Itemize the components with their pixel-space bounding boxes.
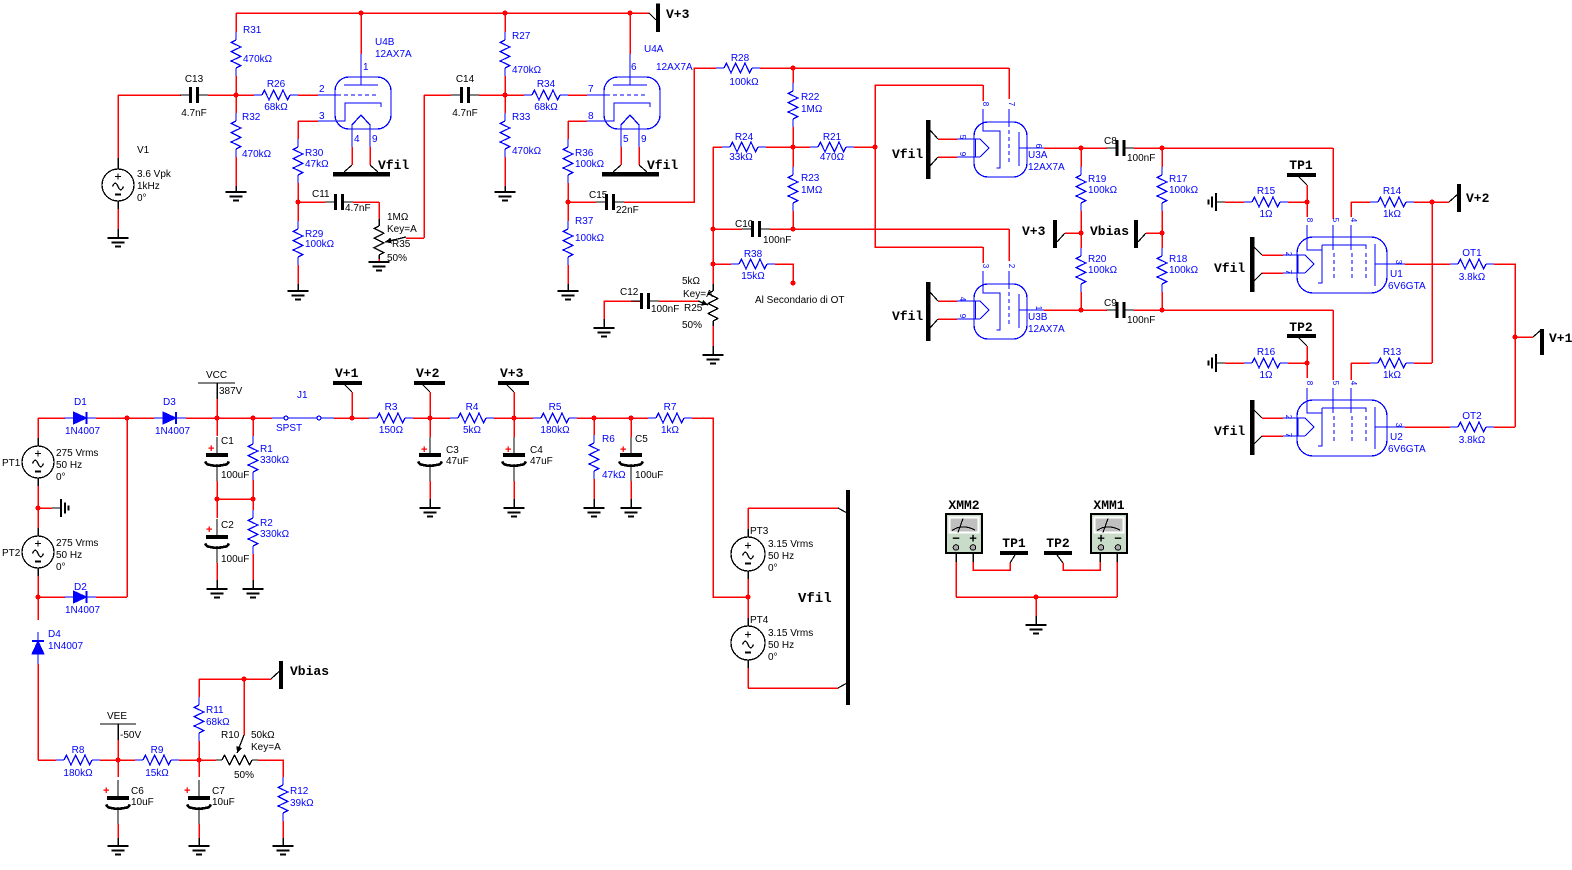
ground left of R25 <box>594 327 615 329</box>
svg-text:R13: R13 <box>1383 347 1402 358</box>
svg-text:Vfil: Vfil <box>1214 261 1245 276</box>
resistor R21 <box>818 142 846 152</box>
svg-text:R38: R38 <box>744 249 763 260</box>
svg-text:3.15 Vrms: 3.15 Vrms <box>768 539 813 550</box>
node C1 C2 junction <box>215 497 220 502</box>
wire Vbias to R10 wiper <box>243 679 245 735</box>
svg-text:100kΩ: 100kΩ <box>575 159 605 170</box>
resistor R16 <box>1252 358 1280 368</box>
svg-text:47uF: 47uF <box>530 456 553 467</box>
svg-text:68kΩ: 68kΩ <box>534 102 558 113</box>
wire U4A cathode pin 8 to R36 <box>568 120 587 122</box>
diode D3 <box>127 417 154 419</box>
wire U3B plate to C9 <box>1044 309 1107 311</box>
capacitor C2 <box>216 499 218 518</box>
svg-text:C11: C11 <box>312 189 330 200</box>
source V1 input <box>117 95 119 158</box>
resistor R34 <box>532 90 560 100</box>
svg-text:100nF: 100nF <box>763 235 791 246</box>
svg-text:180kΩ: 180kΩ <box>540 425 570 436</box>
svg-text:−: − <box>952 531 960 546</box>
ground below C2 <box>207 588 228 590</box>
svg-text:U3B: U3B <box>1028 312 1048 323</box>
svg-text:R26: R26 <box>267 79 286 90</box>
node PT2 bottom junction <box>36 595 41 600</box>
potentiometer R35 1M <box>374 226 384 255</box>
ground below R2 <box>243 588 264 590</box>
wire tail riser to cathodes <box>875 85 983 247</box>
resistor R33 <box>500 121 510 149</box>
svg-text:100nF: 100nF <box>1127 153 1155 164</box>
svg-text:4.7nF: 4.7nF <box>452 108 478 119</box>
svg-text:VCC: VCC <box>206 370 227 381</box>
svg-text:U4A: U4A <box>644 44 664 55</box>
svg-text:Vfil: Vfil <box>1214 424 1245 439</box>
svg-text:4: 4 <box>1349 218 1358 223</box>
svg-text:100uF: 100uF <box>221 470 249 481</box>
svg-text:R30: R30 <box>305 148 324 159</box>
svg-text:C15: C15 <box>589 190 608 201</box>
wire R34 to U4A grid pin 7 <box>568 94 587 96</box>
svg-text:100kΩ: 100kΩ <box>1088 185 1118 196</box>
svg-text:R21: R21 <box>823 132 842 143</box>
resistor OT1 <box>1458 259 1486 269</box>
svg-text:R31: R31 <box>243 25 262 36</box>
svg-text:387V: 387V <box>219 386 243 397</box>
resistor R15 <box>1252 197 1280 207</box>
svg-text:U4B: U4B <box>375 37 395 48</box>
node splitter bias junction <box>791 145 796 150</box>
svg-text:10uF: 10uF <box>131 797 154 808</box>
wire C14 to grid node 2 <box>479 94 524 96</box>
svg-text:47kΩ: 47kΩ <box>305 159 329 170</box>
wire meter ground rail <box>956 596 1117 598</box>
wire U1 plate to OT1 <box>1405 263 1450 265</box>
svg-text:1N4007: 1N4007 <box>48 641 83 652</box>
svg-text:8: 8 <box>1305 218 1314 223</box>
wire XMM2 minus to ground rail <box>955 553 957 562</box>
connector V+2 right <box>1449 194 1458 202</box>
svg-text:C3: C3 <box>446 445 459 456</box>
svg-text:22nF: 22nF <box>616 205 639 216</box>
svg-text:3: 3 <box>1394 423 1403 428</box>
svg-text:C8: C8 <box>1104 136 1117 147</box>
wire OT1 to V+1 node <box>1494 264 1515 337</box>
wire U4B cathode pin 3 to R30 <box>298 120 318 122</box>
node center tap junction <box>36 506 41 511</box>
wire B+ top rail net V+3 <box>236 12 649 14</box>
svg-text:V+2: V+2 <box>416 366 440 381</box>
svg-text:R5: R5 <box>549 402 562 413</box>
svg-text:R1: R1 <box>260 444 273 455</box>
svg-text:470kΩ: 470kΩ <box>512 65 542 76</box>
diode D4 <box>37 597 39 620</box>
wire C12 to R25 wiper <box>659 300 700 302</box>
node V+2 junction <box>1430 200 1435 205</box>
connector Vbias mid <box>1134 220 1138 248</box>
svg-text:VEE: VEE <box>107 711 127 722</box>
capacitor C8 <box>1116 140 1119 156</box>
svg-text:V+1: V+1 <box>335 366 359 381</box>
svg-text:R36: R36 <box>575 148 594 159</box>
svg-text:6V6GTA: 6V6GTA <box>1388 444 1426 455</box>
wire C13 to grid node <box>208 94 254 96</box>
svg-text:50%: 50% <box>387 253 407 264</box>
source PT3 <box>747 508 749 529</box>
svg-text:Key=A: Key=A <box>251 742 281 753</box>
svg-text:3: 3 <box>1394 260 1403 265</box>
wire PT3 to Vfil bus <box>748 507 838 509</box>
ground below meters <box>1026 624 1047 626</box>
ground below R37 <box>558 290 579 292</box>
svg-text:R7: R7 <box>664 402 677 413</box>
capacitor C1 <box>216 418 218 436</box>
wire R13 to screen pin 4 of U2 <box>1350 363 1352 380</box>
svg-text:2: 2 <box>1284 415 1293 420</box>
svg-text:R11: R11 <box>206 705 224 716</box>
svg-text:+: + <box>184 785 190 797</box>
svg-text:50%: 50% <box>234 770 254 781</box>
capacitor C9 <box>1116 302 1119 318</box>
capacitor C12 <box>631 300 641 302</box>
svg-text:OT1: OT1 <box>1462 248 1482 259</box>
svg-text:R24: R24 <box>735 132 754 143</box>
svg-text:R22: R22 <box>801 92 820 103</box>
svg-text:U1: U1 <box>1390 269 1403 280</box>
svg-text:1kΩ: 1kΩ <box>1383 370 1402 381</box>
resistor R23 <box>788 175 798 203</box>
node C8 right junction <box>1160 146 1165 151</box>
svg-text:D2: D2 <box>74 582 87 593</box>
svg-text:6: 6 <box>1034 144 1043 149</box>
svg-text:5: 5 <box>623 134 629 145</box>
svg-text:9: 9 <box>641 134 647 145</box>
svg-text:V+3: V+3 <box>666 7 690 22</box>
wire R31 bottom to node <box>235 76 237 95</box>
svg-text:C9: C9 <box>1104 298 1117 309</box>
svg-text:5kΩ: 5kΩ <box>463 425 482 436</box>
multimeter XMM2 <box>946 514 982 553</box>
svg-text:180kΩ: 180kΩ <box>63 768 93 779</box>
svg-text:Vfil: Vfil <box>892 147 923 162</box>
node V+1 junction <box>1513 335 1518 340</box>
capacitor C5 <box>630 418 632 437</box>
resistor R20 <box>1076 256 1086 284</box>
capacitor C3 <box>429 418 431 437</box>
svg-text:12AX7A: 12AX7A <box>1028 324 1065 335</box>
pentode U2 6V6GTA <box>1297 400 1387 456</box>
potentiometer R10 50k <box>222 755 252 765</box>
svg-text:0°: 0° <box>137 193 147 204</box>
ground below C3 <box>420 507 441 509</box>
svg-text:R27: R27 <box>512 31 531 42</box>
ground below V1 <box>108 237 129 239</box>
pentode U1 6V6GTA <box>1297 237 1387 293</box>
ground below R29 <box>288 290 309 292</box>
resistor R36 <box>563 147 573 175</box>
node stage2 output junction <box>566 200 571 205</box>
wire Vbias net <box>199 678 244 680</box>
svg-text:8: 8 <box>1305 381 1314 386</box>
svg-text:U2: U2 <box>1390 432 1403 443</box>
node junction U4B plate to rail <box>359 11 364 16</box>
svg-text:1MΩ: 1MΩ <box>387 212 409 223</box>
svg-text:PT2: PT2 <box>2 548 21 559</box>
wire C12 to ground <box>604 301 631 319</box>
svg-text:3: 3 <box>319 111 325 122</box>
svg-text:PT4: PT4 <box>750 615 769 626</box>
source PT4 <box>747 618 749 626</box>
ground right of PT1 <box>38 507 52 509</box>
source PT2 <box>37 528 39 536</box>
wire R31 top to rail <box>235 13 237 32</box>
ground below C5 <box>621 507 642 509</box>
svg-text:275 Vrms: 275 Vrms <box>56 448 98 459</box>
svg-text:68kΩ: 68kΩ <box>206 717 230 728</box>
node Vbias junction <box>242 677 247 682</box>
svg-text:C1: C1 <box>221 436 234 447</box>
wire R28 to U3A grid <box>760 67 793 69</box>
resistor R26 <box>262 90 290 100</box>
svg-text:1kHz: 1kHz <box>137 181 160 192</box>
svg-text:470kΩ: 470kΩ <box>242 149 272 160</box>
wire C1 to R1 bottom <box>217 498 253 500</box>
node R19 R20 junction <box>1079 231 1084 236</box>
wire R38 to OT secondary tap <box>775 264 793 281</box>
svg-text:V+2: V+2 <box>1466 191 1490 206</box>
svg-text:68kΩ: 68kΩ <box>264 102 288 113</box>
svg-text:R3: R3 <box>385 402 398 413</box>
svg-text:12AX7A: 12AX7A <box>656 62 693 73</box>
svg-text:PT3: PT3 <box>750 526 769 537</box>
svg-text:100kΩ: 100kΩ <box>1169 185 1199 196</box>
svg-text:50 Hz: 50 Hz <box>768 551 794 562</box>
wire D4 to R8 <box>38 759 56 761</box>
svg-text:C10: C10 <box>735 219 754 230</box>
capacitor C15 <box>568 201 596 203</box>
svg-text:8: 8 <box>588 111 594 122</box>
svg-text:+: + <box>103 785 109 797</box>
ground left of R15 <box>1215 193 1217 211</box>
triode U4B 12AX7A <box>335 77 391 129</box>
wire rail to switch <box>217 417 272 419</box>
connector V+1 bottom <box>333 381 362 385</box>
svg-text:XMM1: XMM1 <box>1093 498 1124 513</box>
svg-text:33kΩ: 33kΩ <box>729 152 753 163</box>
multimeter XMM1 <box>1091 514 1127 553</box>
svg-text:R14: R14 <box>1383 186 1402 197</box>
svg-text:3: 3 <box>981 264 990 269</box>
svg-text:100uF: 100uF <box>221 554 249 565</box>
svg-text:2: 2 <box>319 84 325 95</box>
connector V+1 right <box>1515 336 1533 338</box>
resistor R8 <box>64 755 92 765</box>
svg-text:R4: R4 <box>466 402 479 413</box>
resistor R13 <box>1378 358 1406 368</box>
ground below C4 <box>504 507 525 509</box>
svg-text:15kΩ: 15kΩ <box>741 271 765 282</box>
svg-text:R2: R2 <box>260 518 273 529</box>
power symbol VCC <box>198 382 235 384</box>
resistor R14 <box>1378 197 1406 207</box>
wire XMM2 plus to TP1 <box>972 553 974 562</box>
svg-text:D4: D4 <box>48 629 61 640</box>
wire C15 to R28 <box>624 68 716 202</box>
svg-text:50 Hz: 50 Hz <box>56 550 82 561</box>
node junction U4A plate to rail <box>628 11 633 16</box>
svg-text:−: − <box>1114 531 1122 546</box>
resistor R24 <box>730 142 758 152</box>
svg-text:0°: 0° <box>768 563 778 574</box>
svg-text:10uF: 10uF <box>212 797 235 808</box>
svg-text:-50V: -50V <box>120 730 141 741</box>
svg-text:47uF: 47uF <box>446 456 469 467</box>
svg-text:47kΩ: 47kΩ <box>602 470 626 481</box>
svg-text:1Ω: 1Ω <box>1259 209 1273 220</box>
connector V+3 top right <box>649 13 656 20</box>
net Vfil bus bar <box>846 490 850 705</box>
svg-text:7: 7 <box>588 84 594 95</box>
svg-text:1kΩ: 1kΩ <box>661 425 680 436</box>
svg-text:0°: 0° <box>56 562 66 573</box>
connector V+3 mid <box>1053 220 1057 248</box>
node plate U3B junction <box>1079 308 1084 313</box>
svg-text:R10: R10 <box>221 730 240 741</box>
svg-text:3.8kΩ: 3.8kΩ <box>1459 435 1486 446</box>
svg-text:TP2: TP2 <box>1289 320 1313 335</box>
svg-text:100kΩ: 100kΩ <box>305 239 335 250</box>
svg-text:TP1: TP1 <box>1002 536 1026 551</box>
resistor R4 <box>458 413 486 423</box>
svg-text:J1: J1 <box>297 390 308 401</box>
capacitor C14 <box>424 94 451 96</box>
svg-text:3.8kΩ: 3.8kΩ <box>1459 272 1486 283</box>
node R1 R2 junction <box>251 497 256 502</box>
diode D2 <box>38 596 65 598</box>
switch J1 SPST <box>272 417 284 419</box>
ground below R35 <box>369 261 390 263</box>
connector V+2 bottom <box>414 381 445 385</box>
svg-text:+: + <box>505 444 511 456</box>
connector TP1 probe <box>1000 551 1028 555</box>
node V+1 bottom junction <box>350 416 355 421</box>
node TP2 junction <box>1305 361 1310 366</box>
svg-text:50 Hz: 50 Hz <box>768 640 794 651</box>
resistor R12 <box>278 785 288 813</box>
svg-text:U3A: U3A <box>1028 150 1048 161</box>
svg-text:12AX7A: 12AX7A <box>375 49 412 60</box>
svg-text:C5: C5 <box>635 434 648 445</box>
wire V+2 to R13 <box>1431 202 1433 363</box>
svg-text:1N4007: 1N4007 <box>155 426 190 437</box>
node C10 left junction <box>711 227 716 232</box>
connector V+3 bottom <box>498 381 529 385</box>
node C9 right junction <box>1160 308 1165 313</box>
node R38 junction <box>711 262 716 267</box>
capacitor C6 <box>117 760 119 777</box>
svg-text:TP2: TP2 <box>1046 536 1070 551</box>
svg-text:2: 2 <box>1284 252 1293 257</box>
svg-text:R28: R28 <box>731 53 750 64</box>
ground below R6 <box>584 507 605 509</box>
svg-text:1Ω: 1Ω <box>1259 370 1273 381</box>
svg-text:R18: R18 <box>1169 254 1188 265</box>
svg-text:5kΩ: 5kΩ <box>682 276 701 287</box>
svg-text:R8: R8 <box>72 745 85 756</box>
resistor OT2 <box>1458 422 1486 432</box>
wire left column to R25 <box>712 147 714 284</box>
svg-text:R19: R19 <box>1088 174 1107 185</box>
resistor R18 <box>1157 256 1167 284</box>
svg-text:C12: C12 <box>620 287 639 298</box>
svg-text:1MΩ: 1MΩ <box>801 185 823 196</box>
svg-text:0°: 0° <box>56 472 66 483</box>
svg-text:5: 5 <box>958 135 967 140</box>
svg-text:R16: R16 <box>1257 347 1276 358</box>
wire R14 to screen pin 4 <box>1350 202 1352 217</box>
wire C10 to U3B grid <box>770 228 793 230</box>
resistor R9 <box>143 755 171 765</box>
svg-text:R23: R23 <box>801 173 820 184</box>
connector Vbias bottom <box>244 678 271 680</box>
svg-text:7: 7 <box>1007 102 1016 107</box>
svg-text:PT1: PT1 <box>2 458 21 469</box>
svg-text:Vfil: Vfil <box>892 309 923 324</box>
resistor R38 <box>739 259 767 269</box>
svg-text:+: + <box>206 524 212 536</box>
wire PT4 to Vfil bus <box>748 687 838 689</box>
resistor R28 <box>724 63 752 73</box>
wire XMM1 minus to ground rail <box>1116 553 1118 562</box>
resistor R29 <box>293 229 303 257</box>
svg-text:8: 8 <box>981 102 990 107</box>
svg-text:275 Vrms: 275 Vrms <box>56 538 98 549</box>
svg-text:R12: R12 <box>290 786 309 797</box>
capacitor C10 <box>713 228 742 230</box>
wire V+1 to OT2 <box>1514 337 1516 427</box>
svg-text:100kΩ: 100kΩ <box>1088 265 1118 276</box>
svg-text:50 Hz: 50 Hz <box>56 460 82 471</box>
resistor R2 <box>248 518 258 546</box>
source PT1 <box>37 418 39 438</box>
node grid U4B junction <box>234 93 239 98</box>
wire R37 to ground <box>567 265 569 284</box>
node R1 top junction <box>251 416 256 421</box>
wire R30 to node <box>297 183 299 202</box>
svg-text:D1: D1 <box>74 397 87 408</box>
svg-text:D3: D3 <box>163 397 176 408</box>
svg-text:5: 5 <box>1331 381 1340 386</box>
node R6 junction <box>592 416 597 421</box>
capacitor C4 <box>513 418 515 437</box>
svg-text:OT2: OT2 <box>1462 411 1482 422</box>
wire R29 to ground <box>297 265 299 284</box>
svg-text:3.15 Vrms: 3.15 Vrms <box>768 628 813 639</box>
svg-text:R34: R34 <box>537 79 556 90</box>
node V+2 bottom junction <box>428 416 433 421</box>
connector TP2 probe <box>1044 551 1072 555</box>
svg-text:9: 9 <box>958 152 967 157</box>
svg-text:2: 2 <box>1007 264 1016 269</box>
wire R26 to U4B grid pin 2 <box>298 94 318 96</box>
svg-text:V+3: V+3 <box>500 366 524 381</box>
node C10 right junction <box>791 227 796 232</box>
svg-text:6V6GTA: 6V6GTA <box>1388 281 1426 292</box>
svg-text:C13: C13 <box>185 74 204 85</box>
svg-text:Vfil: Vfil <box>647 158 678 173</box>
node C5 junction <box>629 416 634 421</box>
svg-text:4.7nF: 4.7nF <box>345 203 371 214</box>
